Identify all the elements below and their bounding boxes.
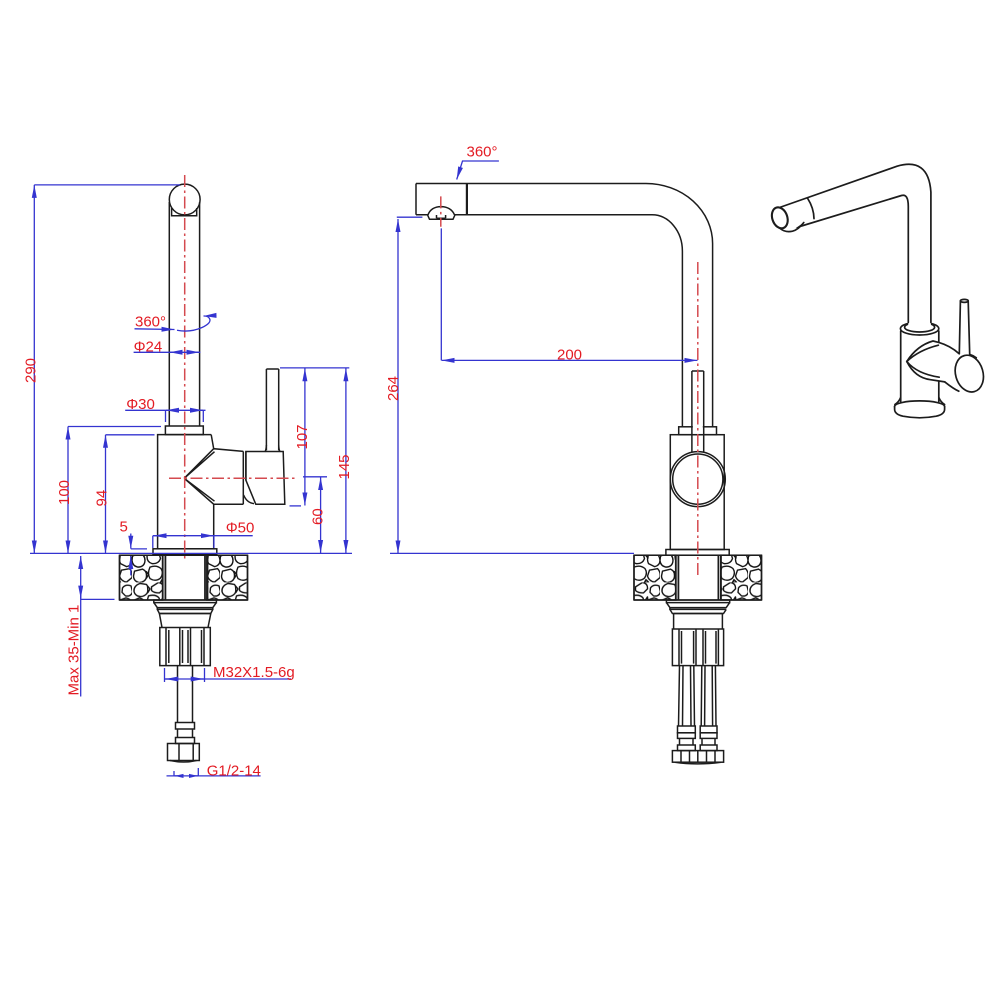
dim max35 — [81, 556, 115, 697]
svg-text:M32X1.5-6g: M32X1.5-6g — [213, 664, 295, 681]
dim 5 leader — [130, 534, 132, 549]
dim 100 — [68, 427, 161, 554]
hex nuts bottom — [672, 751, 723, 764]
spout head block — [416, 184, 646, 215]
rotation 360 leader middle — [457, 161, 499, 180]
shank cylinder front — [674, 614, 723, 630]
rod ring 2 — [176, 738, 195, 744]
3D handle rod — [959, 299, 969, 354]
3D cone lower edge — [907, 362, 945, 382]
countertop slab front view — [634, 555, 762, 600]
base flange plate (5mm) — [153, 549, 217, 555]
3D collar inner ring — [905, 322, 935, 332]
3D spout top edge and outer bend — [780, 164, 931, 322]
countertop slab left view — [120, 555, 248, 600]
3D aerator joint line — [808, 198, 814, 218]
handle boss inner ring — [673, 454, 723, 504]
valve cone — [184, 449, 243, 505]
3D cone lower inner edge — [907, 362, 939, 378]
cone/knob joint lines — [243, 451, 246, 504]
svg-text:100: 100 — [56, 480, 73, 505]
rotation 360 leader left view — [135, 328, 175, 331]
svg-text:200: 200 — [557, 347, 582, 364]
svg-text:G1/2-14: G1/2-14 — [207, 763, 261, 780]
3D collar outer ellipse — [900, 322, 938, 335]
3D beak fill — [907, 341, 966, 391]
svg-text:94: 94 — [94, 490, 111, 507]
body chamfer to cone — [211, 435, 214, 449]
dim 94 — [106, 435, 155, 554]
supply hoses — [679, 666, 717, 726]
tapered neck — [159, 614, 210, 628]
svg-text:145: 145 — [336, 454, 353, 479]
svg-text:Φ30: Φ30 — [126, 396, 155, 413]
3D body cylinder sides — [901, 331, 939, 402]
dim 107 — [280, 368, 349, 506]
svg-text:5: 5 — [120, 519, 128, 536]
svg-text:Φ24: Φ24 — [134, 339, 163, 356]
3D spout bottom edge and inner bend — [802, 195, 909, 322]
dim 290 — [34, 185, 180, 554]
handle lever rod — [266, 369, 278, 450]
body cylinder front — [670, 435, 724, 550]
svg-text:107: 107 — [294, 424, 311, 449]
3D cone upper edge — [907, 341, 939, 362]
inner supply pipe in tube — [692, 371, 704, 453]
3D base flare — [895, 398, 945, 405]
dim 200 — [441, 228, 697, 360]
countertop level extension line — [30, 552, 352, 554]
3D knob top edge — [939, 342, 959, 353]
3D spout tip ellipse — [769, 205, 790, 230]
3D cone upper inner edge — [907, 345, 939, 361]
threaded rod — [178, 666, 193, 723]
rod ring 1 — [176, 723, 195, 730]
centerline spout tip middle view — [440, 196, 442, 226]
dim G1/2 — [167, 768, 261, 776]
faucet body — [158, 435, 214, 549]
handle boss circle — [670, 452, 725, 507]
centerline horizontal left view — [169, 477, 298, 479]
rod neck — [178, 729, 193, 738]
knurled mounting nut — [160, 628, 211, 666]
rod foot flare — [265, 445, 281, 452]
weld collar under ball — [172, 208, 197, 216]
knurled nut front — [672, 629, 723, 666]
dim M32 — [165, 668, 292, 682]
mounting shank through countertop — [163, 555, 208, 600]
svg-text:Max 35-Min 1: Max 35-Min 1 — [66, 605, 83, 696]
red labels, middle view — [385, 144, 582, 401]
spout bend outer — [646, 184, 713, 428]
handle knob — [246, 452, 285, 505]
blue dimensions, middle view — [390, 161, 698, 553]
base flange front — [666, 550, 729, 556]
hose fittings — [678, 726, 718, 751]
rotation 360 arc left view — [177, 316, 210, 331]
svg-text:264: 264 — [385, 376, 402, 401]
shank through countertop front — [676, 555, 721, 600]
centerline vertical middle view — [697, 262, 699, 576]
spout pipe top ball — [169, 184, 200, 215]
washer below countertop front — [666, 600, 729, 614]
red centerlines, left view — [169, 175, 298, 562]
dim phi30 — [125, 410, 205, 422]
3D base disc — [895, 401, 945, 418]
dim 264 — [390, 217, 634, 553]
dim phi24 — [134, 351, 201, 353]
blue dimensions, left view — [30, 185, 352, 776]
svg-text:60: 60 — [310, 508, 327, 525]
washer below countertop — [154, 600, 217, 614]
svg-text:360°: 360° — [467, 144, 498, 161]
svg-text:290: 290 — [22, 358, 39, 383]
spout bend inner — [652, 215, 682, 427]
dim 60 — [303, 477, 327, 553]
red labels, left view — [22, 314, 353, 780]
3D knob rim line — [970, 355, 977, 358]
aerator dome — [428, 207, 455, 215]
svg-text:360°: 360° — [135, 314, 166, 331]
dim 145 — [345, 368, 347, 553]
hex nut G1/2 — [168, 744, 200, 763]
aerator lip — [428, 215, 456, 220]
spout pipe (vertical) — [169, 202, 199, 426]
tube base collar — [679, 427, 717, 435]
svg-text:Φ50: Φ50 — [226, 520, 255, 537]
red centerlines, middle view — [441, 196, 698, 576]
knob bottom arc — [244, 495, 254, 504]
3D knob bottom edge — [945, 382, 959, 391]
dim phi50 — [153, 536, 253, 548]
3D knob face ellipse — [951, 352, 988, 396]
3D aerator lip — [780, 223, 804, 232]
3D spout fill — [780, 164, 931, 326]
pipe base collar (Phi30) — [165, 426, 203, 435]
centerline vertical left view — [184, 175, 186, 562]
3D body cylinder fill — [901, 330, 939, 402]
